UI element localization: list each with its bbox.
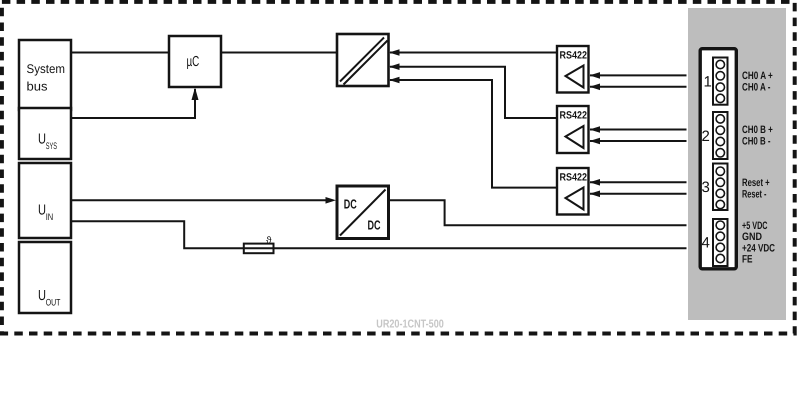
wire: DC/DC output to terminal 4 +5VDC <box>390 200 687 225</box>
terminal group 1 <box>713 58 728 105</box>
svg-text:IN: IN <box>46 212 54 223</box>
wire: terminal 3 Reset- to RS422 #3 <box>590 193 687 195</box>
svg-text:ϑ: ϑ <box>266 236 272 247</box>
wire: Uin through fuse to terminal 4 +24VDC <box>71 221 687 248</box>
svg-text:OUT: OUT <box>46 297 61 308</box>
RS422 transceiver #2 <box>557 106 589 153</box>
arrowhead into RS422 #1 (CH0 A-) <box>590 84 601 91</box>
arrowhead into RS422 #2 (CH0 B-) <box>590 138 601 145</box>
svg-text:µC: µC <box>187 54 200 70</box>
svg-text:System: System <box>27 62 66 76</box>
DC/DC converter <box>337 186 389 239</box>
svg-text:RS422: RS422 <box>560 50 588 62</box>
wire: Uin to DC/DC converter <box>71 199 327 201</box>
gray connector zone panel <box>688 8 786 320</box>
arrowhead into RS422 #2 (CH0 B+) <box>590 126 601 133</box>
wire: uC to isolation barrier <box>221 52 337 54</box>
svg-text:+24 VDC: +24 VDC <box>742 242 775 254</box>
connector block outer frame <box>700 49 736 269</box>
wire: RS422 ch B to isolation (middle) <box>390 67 557 118</box>
fuse F1 (thermal) <box>244 244 274 254</box>
arrowhead into RS422 #3 (Reset-) <box>590 191 601 198</box>
svg-text:+5 VDC: +5 VDC <box>742 220 768 232</box>
svg-text:GND: GND <box>742 231 762 243</box>
wire: terminal 1 CH0 A+ to RS422 #1 <box>590 74 687 76</box>
wire: RS422 ch A to isolation (top) <box>390 52 557 54</box>
arrowhead into DC/DC left edge <box>326 197 337 204</box>
wire: Usys to uC bottom <box>71 89 195 118</box>
block: Uin supply <box>19 163 71 238</box>
svg-text:2: 2 <box>702 128 710 145</box>
arrowhead into isolation right edge (bottom) <box>389 77 400 84</box>
terminal group 4 <box>713 219 728 266</box>
arrowhead into RS422 #3 (Reset+) <box>590 179 601 186</box>
wire: System bus to uC <box>71 52 169 54</box>
svg-text:RS422: RS422 <box>560 172 588 184</box>
terminal group 2 <box>713 112 728 159</box>
block: Uout supply <box>19 242 71 313</box>
wire: terminal 2 CH0 B- to RS422 #2 <box>590 140 687 142</box>
svg-text:CH0 B -: CH0 B - <box>742 135 771 147</box>
wire: RS422 reset to isolation (bottom) <box>390 80 557 188</box>
svg-text:SYS: SYS <box>46 141 57 152</box>
svg-text:CH0 B +: CH0 B + <box>742 124 773 136</box>
arrowhead into isolation right edge (middle) <box>389 63 400 70</box>
svg-text:UR20-1CNT-500: UR20-1CNT-500 <box>376 319 444 331</box>
RS422 transceiver #1 <box>557 46 589 93</box>
arrowhead into isolation right edge (top) <box>389 49 400 56</box>
block: Usys supply <box>19 108 71 159</box>
wire: terminal 3 Reset+ to RS422 #3 <box>590 181 687 183</box>
svg-text:bus: bus <box>27 80 48 94</box>
svg-text:CH0 A +: CH0 A + <box>742 70 773 82</box>
arrowhead into uC bottom <box>192 88 199 101</box>
svg-text:Reset +: Reset + <box>742 177 770 189</box>
isolation barrier U2 (double diagonal) <box>337 34 389 86</box>
svg-text:RS422: RS422 <box>560 110 588 122</box>
RS422 transceiver #3 <box>557 168 589 215</box>
terminal group 3 <box>713 164 728 211</box>
svg-text:1: 1 <box>704 73 712 90</box>
wire: terminal 2 CH0 B+ to RS422 #2 <box>590 129 687 131</box>
svg-text:4: 4 <box>702 235 710 252</box>
svg-text:Reset -: Reset - <box>742 189 767 201</box>
svg-text:FE: FE <box>742 254 753 266</box>
svg-text:DC: DC <box>368 218 381 233</box>
wire: terminal 1 CH0 A- to RS422 #1 <box>590 86 687 88</box>
svg-text:DC: DC <box>344 197 357 212</box>
svg-text:3: 3 <box>702 179 710 196</box>
microcontroller uC <box>169 36 221 87</box>
svg-text:CH0 A -: CH0 A - <box>742 81 771 93</box>
arrowhead into RS422 #1 (CH0 A+) <box>590 72 601 79</box>
block: System bus <box>19 40 71 110</box>
